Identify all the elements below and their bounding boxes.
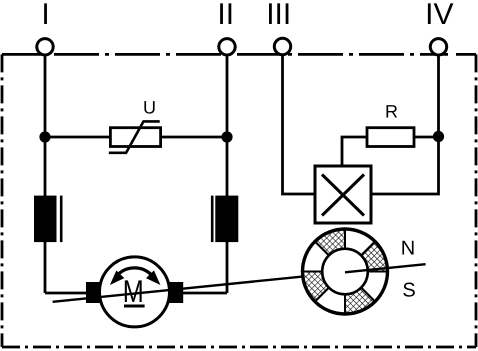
svg-text:N: N <box>401 238 415 260</box>
top boundary line dash-dot segment <box>54 53 448 56</box>
wire: terminal IV down and left to sensor box <box>371 54 439 194</box>
svg-text:U: U <box>143 98 156 118</box>
wire: terminal III down and right to sensor box <box>283 54 316 194</box>
svg-text:III: III <box>266 0 291 31</box>
top boundary line solid segment at right corner <box>456 53 476 56</box>
top boundary line solid segment at left corner <box>2 53 46 56</box>
enclosure border left edge (dash-dot) <box>1 54 4 347</box>
junction node on terminal IV line <box>433 131 444 142</box>
junction node on terminal I line <box>39 131 50 142</box>
motor rotation arrow <box>111 268 158 284</box>
motor brush left (black block) <box>86 282 100 303</box>
terminal II circle <box>219 39 235 55</box>
motor brush right (black block) <box>169 282 183 303</box>
svg-text:S: S <box>402 280 415 302</box>
svg-text:I: I <box>41 0 49 31</box>
motor letter underline <box>124 305 145 308</box>
magnet ring <box>302 229 387 314</box>
svg-text:R: R <box>385 102 398 122</box>
sensor box U2 (box with X) <box>315 166 371 223</box>
choke L2 (black block with core line) <box>212 196 238 243</box>
resistor R body <box>367 128 414 147</box>
enclosure border bottom edge (dash-dot) <box>2 346 476 349</box>
wire: motor level horizontal to right brush <box>183 292 227 295</box>
varistor U body <box>109 121 161 152</box>
wire: resistor right lead to terminal IV line <box>414 136 439 139</box>
wire: terminal I down to motor level <box>44 54 47 293</box>
shaft line from motor to magnet ring <box>53 272 345 302</box>
wire: varistor row left segment <box>45 136 110 139</box>
wire: terminal II down to motor level <box>226 54 229 293</box>
shaft line from ring centre out to N/S labels <box>345 264 426 272</box>
junction node on terminal II line <box>221 131 232 142</box>
terminal IV circle <box>430 39 446 55</box>
wire: varistor row right segment <box>161 136 227 139</box>
wire: motor level horizontal to left brush <box>45 292 88 295</box>
terminal I circle <box>37 39 53 55</box>
svg-text:II: II <box>217 0 234 31</box>
terminal III circle <box>274 38 290 54</box>
choke L1 (black block with core line) <box>34 196 61 243</box>
enclosure border right edge (dash-dot) <box>475 54 478 347</box>
svg-text:IV: IV <box>425 0 453 31</box>
motor M1 body circle <box>100 257 170 327</box>
wire: resistor left lead down to sensor box top <box>342 137 367 166</box>
svg-text:M: M <box>123 273 144 309</box>
